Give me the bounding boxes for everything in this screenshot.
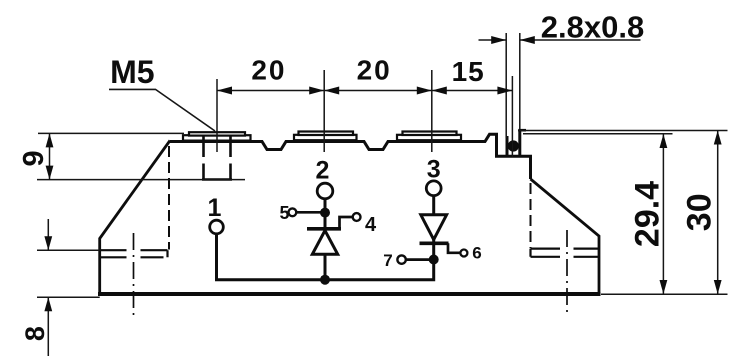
right flange tip cap — [518, 129, 526, 132]
terminal 7 aux cathode — [397, 255, 405, 263]
dimension 30 line — [717, 131, 719, 295]
extension line slot left edge — [505, 33, 507, 138]
extension line flange-top right — [518, 130, 728, 132]
dimension line 20/20/15 — [217, 90, 512, 92]
svg-text:20: 20 — [357, 55, 392, 86]
dimension 8 line — [47, 219, 49, 250]
package left chamfer edge — [100, 141, 170, 296]
extension line pad-top level left — [38, 132, 184, 134]
svg-text:5: 5 — [279, 203, 289, 223]
svg-text:2.8x0.8: 2.8x0.8 — [541, 10, 644, 45]
wire thyristor1 anode to bus — [324, 253, 327, 280]
wire lead 5 — [296, 211, 325, 214]
terminal pad 2 base — [294, 135, 357, 140]
svg-text:1: 1 — [208, 194, 222, 222]
thyristor V1 cathode bar — [307, 227, 341, 231]
M5 tapped hole right wall — [229, 135, 232, 180]
svg-text:M5: M5 — [110, 54, 154, 90]
terminal 3 — [426, 181, 441, 196]
M5 hole bottom — [202, 178, 232, 180]
terminal pad 3 top — [403, 132, 457, 136]
svg-text:6: 6 — [472, 244, 481, 263]
svg-text:30: 30 — [681, 193, 719, 231]
package right chamfer edge — [531, 179, 600, 295]
terminal 1 — [210, 220, 224, 234]
wire terminal3 down to thyristor2 — [432, 196, 435, 215]
package bottom baseplate line — [98, 292, 601, 296]
svg-text:3: 3 — [427, 156, 441, 184]
thyristor V2 triangle — [421, 215, 447, 240]
wire terminal1 to bus and bus to thyristor2 — [217, 234, 434, 280]
dimension 29.4 line — [662, 134, 664, 294]
node junction lead5 — [320, 208, 330, 218]
hidden edge dashed left — [168, 146, 170, 250]
thyristor V2 cathode bar — [420, 242, 449, 246]
terminal 2 — [317, 183, 333, 199]
extension line slot right edge — [519, 33, 521, 129]
terminal pad 3 base — [397, 135, 461, 140]
slot hole (2.8x0.8) filled — [508, 140, 519, 151]
terminal pad 1 top — [189, 132, 245, 135]
svg-text:8: 8 — [20, 326, 50, 341]
right flange slot right wall — [518, 130, 521, 156]
svg-text:4: 4 — [365, 214, 377, 236]
terminal 5 aux cathode — [289, 208, 297, 216]
centerline left mounting hole — [133, 233, 135, 319]
dimension 2.8x0.8 arrow left — [479, 39, 507, 41]
terminal pad 2 top — [299, 132, 354, 136]
svg-text:9: 9 — [18, 150, 50, 166]
package outline top surface with notches and right flange — [170, 134, 531, 179]
svg-text:29.4: 29.4 — [629, 181, 667, 247]
thyristor V1 gate wire — [340, 217, 353, 229]
wire lead 7 — [406, 258, 430, 261]
thyristor V2 gate wire — [448, 243, 460, 253]
extension line hole-bottom level — [37, 179, 245, 181]
extension line pad3 center — [431, 70, 433, 152]
left mounting pocket — [100, 250, 168, 257]
extension line pad1 center — [216, 79, 218, 152]
svg-text:20: 20 — [251, 54, 286, 85]
extension line slot center — [511, 76, 513, 157]
dimension 9 line — [49, 133, 51, 179]
svg-text:2: 2 — [316, 157, 330, 185]
terminal 4 gate — [353, 213, 361, 221]
extension line pocket level left — [37, 249, 100, 251]
hidden edge dashed right — [530, 183, 532, 248]
centerline right mounting hole — [566, 230, 568, 312]
extension line pad-top right — [523, 133, 673, 135]
right flange slot left wall — [506, 136, 509, 156]
M5 leader line — [109, 89, 215, 131]
terminal pad 1 base — [183, 135, 251, 140]
wire terminal2 down to thyristor1 — [324, 199, 327, 229]
extension line bottom right — [601, 293, 728, 295]
terminal 6 gate — [460, 250, 467, 257]
node junction bus — [320, 275, 330, 285]
svg-text:7: 7 — [383, 251, 392, 270]
extension line bottom level left — [37, 296, 100, 298]
node junction lead7 — [429, 255, 439, 265]
right mounting pocket — [531, 249, 600, 257]
svg-text:15: 15 — [452, 56, 485, 87]
thyristor V1 triangle — [312, 231, 337, 255]
extension line pad2 center — [323, 70, 325, 152]
M5 tapped hole left wall — [202, 135, 205, 180]
dimension 2.8x0.8 shelf — [520, 39, 641, 41]
